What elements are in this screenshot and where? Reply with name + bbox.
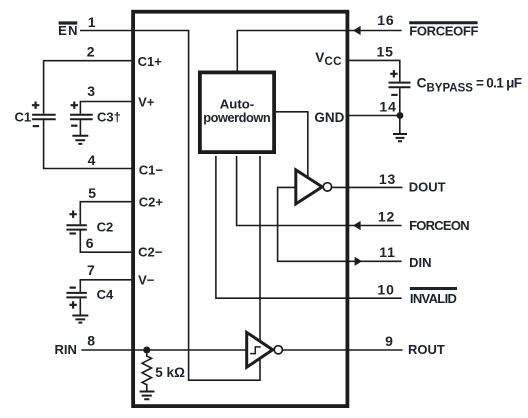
- op-amp U1 driver triangle (DOUT): [296, 170, 322, 204]
- svg-text:3: 3: [87, 83, 95, 99]
- svg-text:10: 10: [377, 281, 394, 297]
- Auto-powerdown box: [200, 72, 274, 152]
- wire pin13 DOUT from bubble out: [332, 186, 403, 188]
- ground under C3: [72, 136, 88, 144]
- wire C1 branch lower to pin4: [44, 120, 134, 168]
- wire pin14 GND out to junction: [346, 115, 400, 117]
- capacitor C4 plus (bottom): [69, 301, 76, 308]
- svg-text:C2+: C2+: [139, 194, 164, 209]
- wire pin11 DIN into chip, up, to driver input: [278, 187, 402, 261]
- svg-text:8: 8: [87, 332, 95, 348]
- svg-text:powerdown: powerdown: [203, 110, 271, 125]
- svg-text:V−: V−: [138, 272, 155, 287]
- capacitor C3 plates: [70, 115, 93, 120]
- svg-text:6: 6: [86, 235, 94, 251]
- wire FORCEOFF net: pin16 wire into chip to box top: [237, 31, 401, 73]
- wire C4 to ground: [79, 298, 81, 314]
- svg-text:C4: C4: [97, 287, 114, 302]
- wire C2 to pin6: [80, 231, 134, 253]
- svg-text:1: 1: [88, 14, 96, 30]
- ground at GND pin: [393, 134, 407, 141]
- svg-text:C2−: C2−: [138, 244, 163, 259]
- capacitor C2 minus: [70, 232, 76, 234]
- capacitor C4 minus (top): [70, 287, 76, 289]
- wire pin9 ROUT from bubble out: [282, 349, 402, 351]
- receiver hysteresis symbol: [250, 347, 261, 354]
- svg-text:ROUT: ROUT: [408, 342, 445, 357]
- receiver output bubble: [274, 346, 282, 354]
- svg-text:13: 13: [379, 171, 396, 187]
- svg-text:2: 2: [87, 44, 95, 60]
- capacitor CBYPASS minus: [391, 94, 397, 96]
- svg-text:5: 5: [88, 185, 96, 201]
- svg-text:V+: V+: [138, 94, 155, 109]
- ground under resistor R1: [140, 392, 155, 400]
- wire RIN pin8 into receiver input: [81, 349, 247, 351]
- capacitor C1 plates: [32, 115, 56, 120]
- svg-text:FORCEON: FORCEON: [409, 218, 470, 233]
- svg-text:DIN: DIN: [409, 255, 431, 270]
- svg-text:DOUT: DOUT: [409, 180, 446, 195]
- svg-text:RIN: RIN: [55, 342, 77, 357]
- svg-text:C3†: C3†: [97, 109, 121, 124]
- svg-text:FORCEOFF: FORCEOFF: [409, 23, 478, 38]
- svg-text:C2: C2: [97, 219, 114, 234]
- svg-text:C1−: C1−: [139, 162, 164, 177]
- wire EN net: pin1 into chip, down, across bottom, up to auto-powerdown box: [80, 31, 260, 381]
- resistor R1 5 kOhm zigzag: [142, 354, 151, 392]
- capacitor CBYPASS plates: [389, 83, 411, 88]
- op-amp U2 receiver triangle (ROUT): [247, 332, 273, 367]
- svg-text:7: 7: [87, 262, 95, 278]
- wire C3 to ground: [79, 120, 81, 135]
- svg-text:16: 16: [377, 12, 394, 28]
- capacitor C1 plus: [32, 102, 39, 109]
- IC package outline: [133, 12, 347, 406]
- svg-text:15: 15: [377, 44, 394, 60]
- driver output bubble: [323, 183, 331, 191]
- arrowhead into pin 12: [353, 221, 361, 230]
- svg-text:12: 12: [378, 209, 395, 225]
- arrowhead pin 11 DIN: [355, 257, 363, 266]
- wire pin2 to C1 branch: [44, 61, 134, 114]
- wire pin15 VCC out and down to CBYPASS: [346, 60, 400, 81]
- svg-text:C1+: C1+: [138, 54, 163, 69]
- wire auto-powerdown box right to driver top: [275, 112, 308, 178]
- arrowhead into pin 16: [353, 26, 361, 35]
- capacitor C1 minus: [33, 125, 39, 127]
- wire pin7 to C4: [80, 280, 134, 292]
- ground under C4: [72, 316, 88, 323]
- capacitor C2 plates: [66, 225, 86, 229]
- svg-text:GND: GND: [314, 110, 344, 125]
- svg-text:INVALID: INVALID: [410, 291, 457, 306]
- wire pin12 FORCEON into chip and up to box: [237, 156, 402, 226]
- wire CBYPASS bottom to junction and ground: [399, 88, 401, 133]
- svg-text:14: 14: [379, 98, 396, 114]
- wire pin3 to C3: [80, 102, 134, 114]
- capacitor CBYPASS plus: [390, 70, 397, 77]
- capacitor C2 plus: [69, 211, 76, 218]
- capacitor C3 plus: [71, 102, 78, 109]
- svg-text:C1: C1: [15, 109, 32, 124]
- svg-text:11: 11: [379, 244, 396, 260]
- capacitor C3 minus: [71, 125, 77, 127]
- svg-text:9: 9: [385, 333, 393, 349]
- svg-text:EN: EN: [58, 23, 77, 38]
- capacitor C4 plates: [66, 293, 86, 298]
- wire pin5 to C2: [80, 202, 134, 225]
- svg-text:5 kΩ: 5 kΩ: [155, 365, 185, 380]
- wire pin10 INVALID into chip and up to box: [216, 156, 402, 298]
- svg-text:4: 4: [88, 152, 96, 168]
- junction dot on RIN line: [143, 347, 150, 354]
- junction dot at GND/CBYPASS: [397, 112, 404, 119]
